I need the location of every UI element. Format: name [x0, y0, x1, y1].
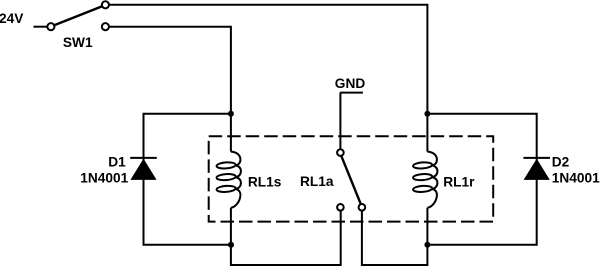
- wire: [144, 114, 231, 245]
- junction dot: [228, 242, 234, 248]
- junction dot: [424, 111, 430, 117]
- junction dot: [228, 111, 234, 117]
- svg-text:SW1: SW1: [63, 35, 93, 50]
- svg-text:RL1a: RL1a: [300, 174, 334, 189]
- svg-text:D1: D1: [108, 155, 126, 170]
- svg-text:1N4001: 1N4001: [80, 170, 128, 185]
- wire: [339, 93, 341, 150]
- diode D1: [130, 158, 157, 180]
- relay contact RL1a: [337, 149, 365, 210]
- svg-text:D2: D2: [552, 155, 570, 170]
- diode D2: [523, 158, 550, 180]
- wire: [109, 27, 231, 152]
- svg-text:1N4001: 1N4001: [552, 170, 600, 185]
- relay coil RL1s: [216, 152, 241, 208]
- wire: [34, 26, 48, 28]
- wire: [231, 208, 341, 265]
- relay coil RL1r: [413, 152, 438, 208]
- node GND bar: [340, 92, 363, 94]
- svg-text:RL1r: RL1r: [443, 174, 475, 189]
- wire: [109, 5, 428, 152]
- wire: [427, 114, 536, 245]
- svg-text:24V: 24V: [0, 11, 24, 26]
- relay box dashed: [209, 136, 494, 221]
- svg-text:RL1s: RL1s: [248, 174, 282, 189]
- switch SW1: [47, 1, 109, 30]
- wire: [362, 208, 428, 265]
- svg-text:GND: GND: [335, 76, 366, 91]
- junction dot: [424, 242, 430, 248]
